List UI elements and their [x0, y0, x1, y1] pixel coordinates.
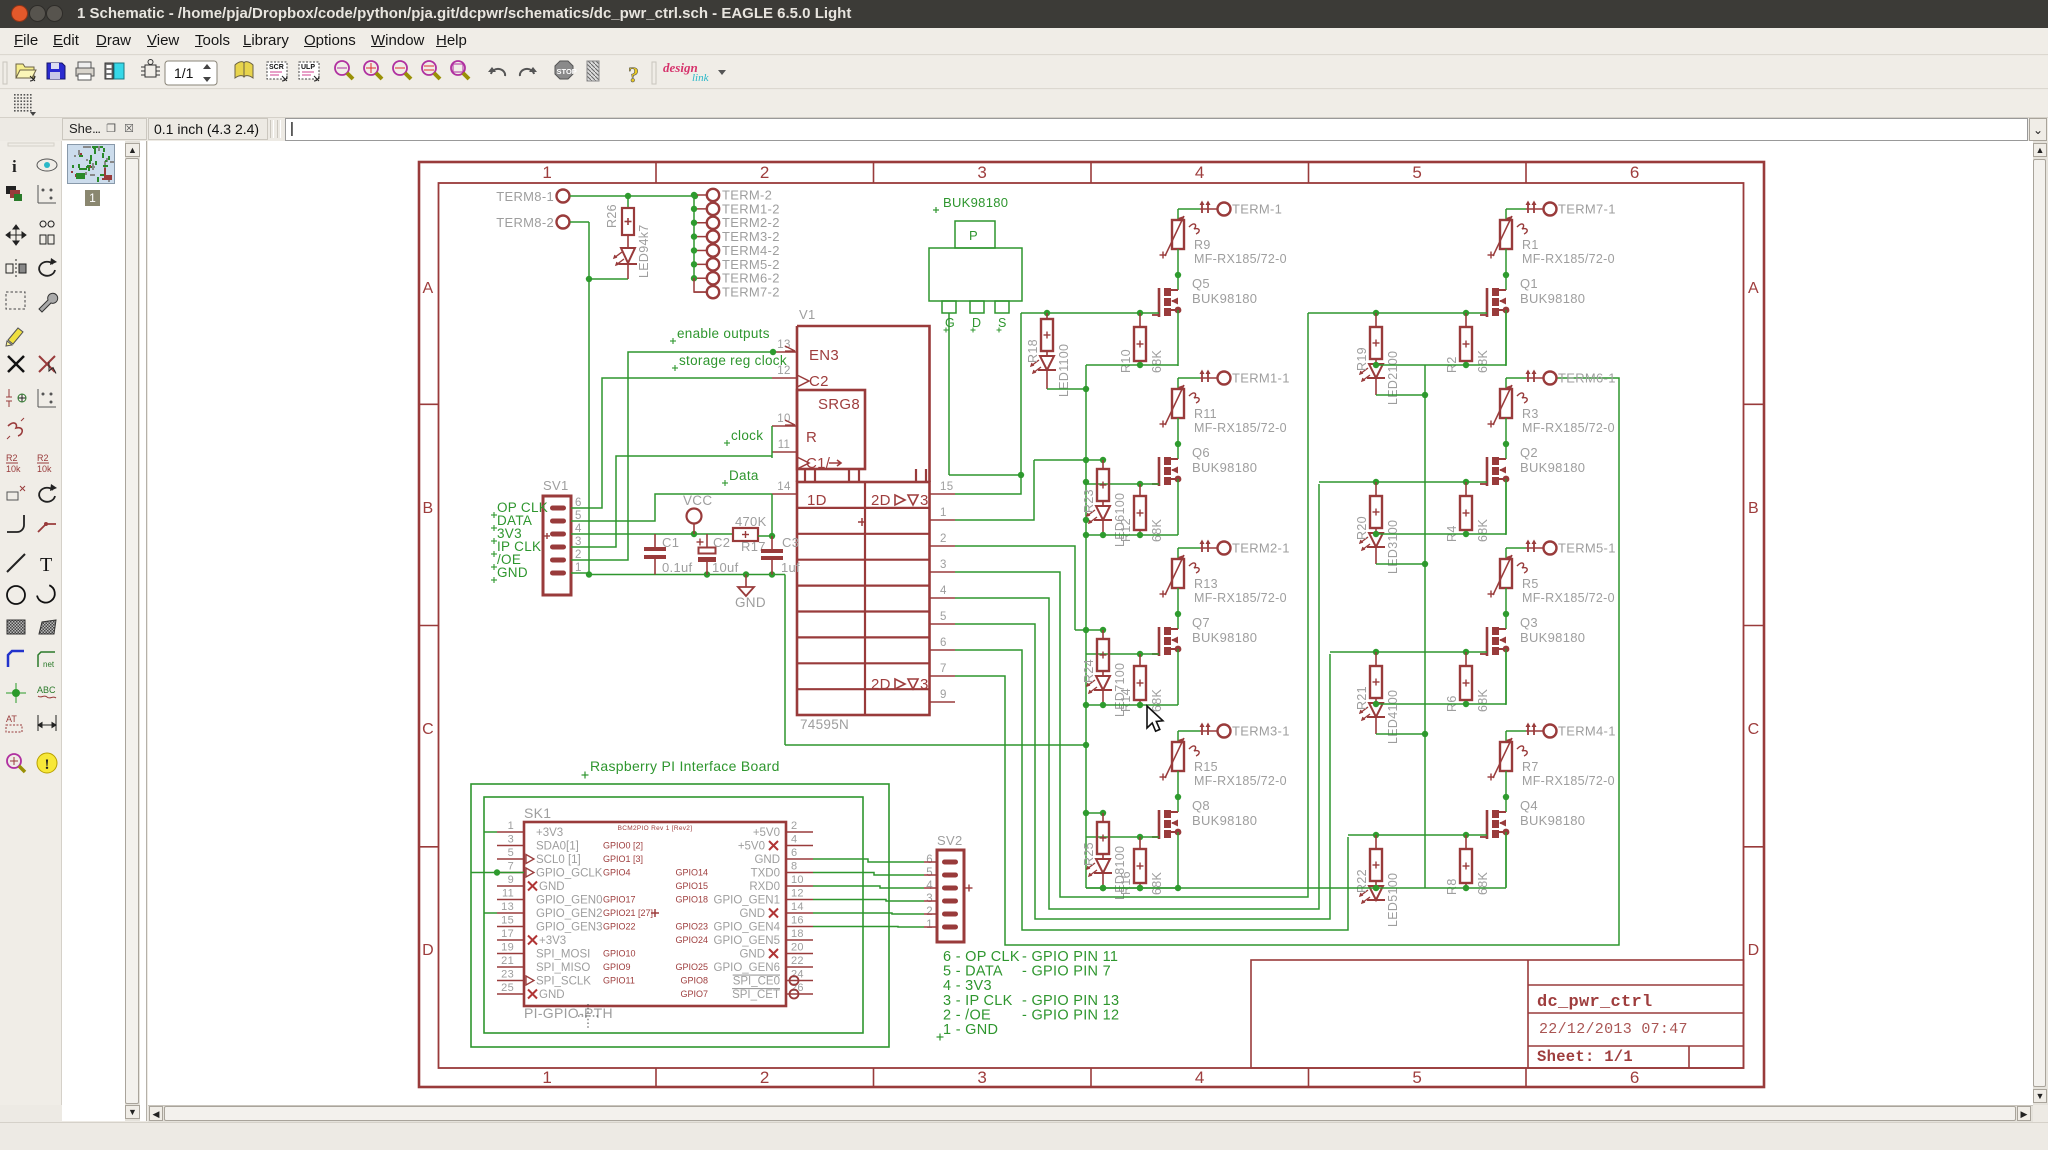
svg-text:68K: 68K	[1150, 349, 1164, 373]
svg-text:- GPIO PIN 7: - GPIO PIN 7	[1022, 964, 1111, 980]
svg-text:GPIO24: GPIO24	[675, 935, 708, 945]
svg-text:0.1uf: 0.1uf	[662, 560, 693, 575]
svg-text:21: 21	[501, 955, 514, 967]
svg-text:5: 5	[1412, 1068, 1422, 1087]
svg-text:TERM8-2: TERM8-2	[496, 215, 554, 230]
svg-text:3: 3	[977, 163, 987, 182]
svg-text:+3V3: +3V3	[539, 935, 566, 947]
svg-text:MF-RX185/72-0: MF-RX185/72-0	[1194, 591, 1287, 605]
svg-text:68K: 68K	[1150, 688, 1164, 712]
svg-text:R2: R2	[6, 453, 18, 463]
svg-text:?: ?	[628, 62, 639, 87]
svg-text:3: 3	[926, 893, 933, 905]
svg-text:ABC: ABC	[37, 685, 56, 695]
svg-text:A: A	[423, 280, 434, 297]
svg-text:SPI_CE0: SPI_CE0	[733, 976, 780, 988]
svg-text:6: 6	[1630, 1068, 1640, 1087]
svg-text:74595N: 74595N	[800, 717, 849, 732]
svg-text:STOP: STOP	[557, 67, 577, 76]
svg-text:TERM6-2: TERM6-2	[722, 271, 780, 286]
svg-text:ULP: ULP	[301, 64, 315, 71]
svg-text:8: 8	[791, 861, 797, 873]
svg-text:4 - 3V3: 4 - 3V3	[943, 978, 992, 994]
svg-text:GPIO17: GPIO17	[603, 895, 636, 905]
svg-text:B: B	[1748, 500, 1759, 517]
svg-text:AT: AT	[6, 714, 17, 724]
svg-text:Q5: Q5	[1192, 276, 1210, 291]
svg-text:C1: C1	[662, 535, 679, 550]
svg-text:1: 1	[508, 820, 514, 832]
svg-text:P: P	[969, 228, 978, 243]
svg-text:2: 2	[940, 533, 947, 545]
svg-text:3: 3	[575, 536, 582, 548]
svg-text:5: 5	[508, 847, 514, 859]
svg-text:TERM3-2: TERM3-2	[722, 229, 780, 244]
svg-text:1: 1	[542, 163, 552, 182]
svg-text:T: T	[40, 554, 52, 576]
svg-text:storage reg clock: storage reg clock	[679, 353, 787, 368]
svg-text:BUK98180: BUK98180	[1520, 630, 1585, 645]
svg-text:TERM7-2: TERM7-2	[722, 285, 780, 300]
svg-text:MF-RX185/72-0: MF-RX185/72-0	[1522, 421, 1615, 435]
svg-text:!: !	[45, 757, 50, 773]
svg-text:- GPIO PIN 13: - GPIO PIN 13	[1022, 993, 1119, 1009]
svg-text:TERM7-1: TERM7-1	[1558, 202, 1616, 217]
svg-text:VCC: VCC	[683, 493, 712, 508]
svg-text:2D: 2D	[871, 676, 891, 693]
svg-text:1: 1	[940, 507, 947, 519]
svg-text:R10: R10	[1119, 349, 1133, 373]
svg-text:TERM-1: TERM-1	[1232, 202, 1282, 217]
svg-text:1: 1	[575, 562, 582, 574]
svg-text:6: 6	[575, 497, 582, 509]
svg-text:10k: 10k	[37, 464, 52, 474]
svg-text:1: 1	[926, 919, 933, 931]
svg-text:2: 2	[926, 906, 933, 918]
svg-text:11: 11	[502, 888, 514, 900]
svg-text:SPI_SCLK: SPI_SCLK	[536, 976, 591, 988]
svg-text:TXD0: TXD0	[751, 868, 780, 880]
svg-text:SCR: SCR	[269, 64, 284, 71]
svg-text:68K: 68K	[1150, 518, 1164, 542]
svg-text:Q2: Q2	[1520, 445, 1538, 460]
svg-text:GPIO15: GPIO15	[675, 881, 708, 891]
svg-text:16: 16	[791, 915, 804, 927]
svg-text:GND: GND	[754, 854, 780, 866]
svg-text:10k: 10k	[6, 464, 21, 474]
svg-text:enable outputs: enable outputs	[677, 326, 770, 341]
svg-text:68K: 68K	[1476, 349, 1490, 373]
svg-text:BUK98180: BUK98180	[1520, 813, 1585, 828]
svg-text:3: 3	[920, 492, 929, 509]
svg-text:SRG8: SRG8	[818, 396, 860, 413]
svg-text:3: 3	[977, 1068, 987, 1087]
svg-text:19: 19	[501, 942, 514, 954]
svg-text:7: 7	[940, 663, 947, 675]
svg-text:BUK98180: BUK98180	[1192, 460, 1257, 475]
svg-text:MF-RX185/72-0: MF-RX185/72-0	[1522, 591, 1615, 605]
svg-text:C1/: C1/	[806, 455, 831, 472]
svg-text:SK1: SK1	[524, 805, 551, 821]
svg-text:R11: R11	[1194, 407, 1217, 421]
svg-text:G: G	[945, 316, 955, 330]
svg-text:TERM5-1: TERM5-1	[1558, 541, 1616, 556]
svg-text:link: link	[692, 72, 710, 84]
svg-text:R20: R20	[1355, 516, 1369, 540]
svg-text:6: 6	[1630, 163, 1640, 182]
svg-text:Q8: Q8	[1192, 798, 1210, 813]
svg-text:3: 3	[920, 676, 929, 693]
svg-text:TERM-2: TERM-2	[722, 188, 772, 203]
svg-text:D: D	[422, 942, 434, 959]
svg-text:GPIO23: GPIO23	[675, 922, 708, 932]
svg-text:1uf: 1uf	[781, 560, 800, 575]
svg-text:C: C	[422, 721, 434, 738]
svg-text:GND: GND	[739, 949, 765, 961]
svg-text:3: 3	[508, 834, 514, 846]
svg-text:MF-RX185/72-0: MF-RX185/72-0	[1194, 421, 1287, 435]
svg-text:LED4100: LED4100	[1386, 690, 1400, 744]
svg-text:GPIO4: GPIO4	[603, 868, 631, 878]
svg-text:GPIO0 [2]: GPIO0 [2]	[603, 841, 643, 851]
svg-text:4: 4	[926, 880, 933, 892]
svg-text:GPIO21 [27]: GPIO21 [27]	[603, 908, 653, 918]
svg-text:20: 20	[791, 942, 804, 954]
svg-text:GPIO_GEN6: GPIO_GEN6	[714, 962, 780, 974]
svg-text:RXD0: RXD0	[749, 881, 780, 893]
svg-text:Sheet: 1/1: Sheet: 1/1	[1537, 1048, 1633, 1066]
svg-text:BUK98180: BUK98180	[943, 195, 1008, 210]
svg-text:+5V0: +5V0	[738, 841, 765, 853]
svg-text:R26: R26	[605, 204, 619, 228]
svg-text:+3V3: +3V3	[536, 827, 563, 839]
svg-text:2: 2	[575, 549, 582, 561]
svg-text:1/1: 1/1	[174, 65, 194, 81]
svg-text:R19: R19	[1355, 347, 1369, 371]
svg-text:R7: R7	[1522, 760, 1539, 774]
svg-text:5: 5	[926, 867, 933, 879]
svg-text:GPIO_GEN3: GPIO_GEN3	[536, 922, 602, 934]
svg-text:GPIO9: GPIO9	[603, 962, 631, 972]
svg-text:22/12/2013 07:47: 22/12/2013 07:47	[1539, 1021, 1688, 1038]
svg-text:SPI_CET: SPI_CET	[732, 989, 780, 1001]
svg-text:R22: R22	[1355, 869, 1369, 893]
svg-text:11: 11	[778, 439, 791, 451]
svg-text:TERM6-1: TERM6-1	[1558, 371, 1616, 386]
svg-text:R: R	[806, 429, 817, 446]
svg-text:10uf: 10uf	[712, 560, 739, 575]
svg-text:TERM8-1: TERM8-1	[496, 189, 554, 204]
svg-text:470K: 470K	[735, 514, 767, 529]
svg-text:68K: 68K	[1476, 688, 1490, 712]
svg-text:R25: R25	[1082, 842, 1096, 866]
svg-text:25: 25	[501, 982, 514, 994]
svg-text:MF-RX185/72-0: MF-RX185/72-0	[1522, 774, 1615, 788]
svg-text:4: 4	[575, 523, 582, 535]
svg-text:Q6: Q6	[1192, 445, 1210, 460]
svg-text:GND: GND	[539, 881, 565, 893]
svg-text:net: net	[43, 660, 55, 669]
svg-text:6 - OP CLK: 6 - OP CLK	[943, 949, 1020, 965]
svg-text:dc_pwr_ctrl: dc_pwr_ctrl	[1537, 993, 1653, 1012]
svg-text:7: 7	[508, 861, 514, 873]
svg-text:1D: 1D	[807, 492, 827, 509]
svg-text:R18: R18	[1026, 339, 1040, 363]
svg-text:68K: 68K	[1476, 518, 1490, 542]
svg-text:GND: GND	[497, 565, 528, 580]
svg-text:V1: V1	[799, 307, 816, 322]
svg-text:5: 5	[575, 510, 582, 522]
svg-text:SPI_MOSI: SPI_MOSI	[536, 949, 590, 961]
svg-text:R1: R1	[1522, 238, 1539, 252]
svg-text:PI-GPIO-PTH: PI-GPIO-PTH	[524, 1005, 613, 1021]
svg-text:D: D	[1748, 942, 1760, 959]
svg-text:13: 13	[777, 339, 790, 351]
svg-text:BCM2PIO Rev 1 [Rev2]: BCM2PIO Rev 1 [Rev2]	[618, 825, 693, 832]
svg-text:MF-RX185/72-0: MF-RX185/72-0	[1194, 252, 1287, 266]
svg-text:22: 22	[791, 955, 804, 967]
svg-text:C: C	[1748, 721, 1760, 738]
svg-text:TERM4-2: TERM4-2	[722, 243, 780, 258]
svg-text:3: 3	[940, 559, 947, 571]
svg-text:SCL0 [1]: SCL0 [1]	[536, 854, 581, 866]
svg-text:2D: 2D	[871, 492, 891, 509]
svg-text:68K: 68K	[1150, 871, 1164, 895]
svg-text:14: 14	[791, 901, 804, 913]
svg-text:2: 2	[791, 820, 797, 832]
svg-text:- GPIO PIN 12: - GPIO PIN 12	[1022, 1007, 1119, 1023]
svg-text:13: 13	[501, 901, 514, 913]
svg-text:C2: C2	[809, 373, 829, 390]
svg-text:R9: R9	[1194, 238, 1211, 252]
svg-text:BUK98180: BUK98180	[1520, 460, 1585, 475]
svg-text:BUK98180: BUK98180	[1192, 813, 1257, 828]
svg-text:Q3: Q3	[1520, 615, 1538, 630]
svg-text:i: i	[12, 157, 17, 176]
svg-text:R13: R13	[1194, 577, 1218, 591]
svg-text:GPIO7: GPIO7	[680, 989, 708, 999]
svg-text:1: 1	[542, 1068, 552, 1087]
svg-text:GPIO_GEN1: GPIO_GEN1	[714, 895, 780, 907]
svg-text:2: 2	[760, 163, 770, 182]
svg-text:15: 15	[940, 481, 953, 493]
svg-text:5: 5	[1412, 163, 1422, 182]
svg-text:GPIO22: GPIO22	[603, 922, 636, 932]
svg-text:1 - GND: 1 - GND	[943, 1022, 998, 1038]
svg-text:4: 4	[940, 585, 947, 597]
svg-text:B: B	[423, 500, 434, 517]
svg-text:4: 4	[1195, 1068, 1205, 1087]
svg-text:6: 6	[791, 847, 797, 859]
svg-text:LED3100: LED3100	[1386, 520, 1400, 574]
svg-text:4: 4	[1195, 163, 1205, 182]
svg-text:R23: R23	[1082, 489, 1096, 513]
svg-text:GPIO_GEN2: GPIO_GEN2	[536, 908, 602, 920]
svg-text:R14: R14	[1119, 688, 1133, 712]
svg-text:15: 15	[501, 915, 514, 927]
svg-text:17: 17	[501, 928, 514, 940]
svg-text:GPIO_GEN0: GPIO_GEN0	[536, 895, 602, 907]
svg-text:Q1: Q1	[1520, 276, 1538, 291]
svg-text:3 - IP CLK: 3 - IP CLK	[943, 993, 1013, 1009]
svg-text:GPIO_GCLK: GPIO_GCLK	[536, 868, 603, 880]
svg-text:12: 12	[791, 888, 804, 900]
svg-text:GPIO14: GPIO14	[675, 868, 708, 878]
svg-text:R21: R21	[1355, 686, 1369, 710]
svg-text:BUK98180: BUK98180	[1520, 291, 1585, 306]
svg-text:TERM2-2: TERM2-2	[722, 215, 780, 230]
svg-text:GPIO1 [3]: GPIO1 [3]	[603, 854, 643, 864]
svg-text:23: 23	[501, 969, 514, 981]
svg-text:68K: 68K	[1476, 871, 1490, 895]
svg-text:R5: R5	[1522, 577, 1539, 591]
svg-text:9: 9	[508, 874, 514, 886]
svg-text:GND: GND	[735, 595, 766, 610]
svg-text:GPIO18: GPIO18	[675, 895, 708, 905]
svg-text:6: 6	[926, 854, 933, 866]
svg-text:GND: GND	[539, 989, 565, 1001]
svg-text:GPIO10: GPIO10	[603, 949, 636, 959]
svg-text:R15: R15	[1194, 760, 1218, 774]
svg-text:GPIO_GEN5: GPIO_GEN5	[714, 935, 780, 947]
svg-text:5: 5	[940, 611, 947, 623]
svg-text:LED5100: LED5100	[1386, 873, 1400, 927]
svg-text:10: 10	[791, 874, 804, 886]
svg-text:GND: GND	[739, 908, 765, 920]
svg-text:TERM3-1: TERM3-1	[1232, 724, 1290, 739]
svg-text:Q4: Q4	[1520, 798, 1538, 813]
svg-text:R24: R24	[1082, 659, 1096, 683]
svg-text:Q7: Q7	[1192, 615, 1210, 630]
svg-text:2 - /OE: 2 - /OE	[943, 1007, 991, 1023]
svg-text:GPIO8: GPIO8	[680, 976, 708, 986]
svg-text:SV2: SV2	[937, 833, 962, 848]
svg-text:6: 6	[940, 637, 947, 649]
svg-text:TERM2-1: TERM2-1	[1232, 541, 1290, 556]
svg-text:C2: C2	[713, 535, 730, 550]
svg-text:EN3: EN3	[809, 347, 839, 364]
svg-text:clock: clock	[731, 428, 763, 443]
svg-text:SV1: SV1	[543, 478, 568, 493]
svg-text:TERM1-2: TERM1-2	[722, 201, 780, 216]
svg-text:SPI_MISO: SPI_MISO	[536, 962, 590, 974]
svg-text:10: 10	[777, 413, 790, 425]
svg-text:R3: R3	[1522, 407, 1539, 421]
svg-text:TERM4-1: TERM4-1	[1558, 724, 1616, 739]
svg-text:2: 2	[760, 1068, 770, 1087]
svg-text:MF-RX185/72-0: MF-RX185/72-0	[1522, 252, 1615, 266]
svg-text:GPIO25: GPIO25	[675, 962, 708, 972]
svg-text:LED94k7: LED94k7	[637, 224, 651, 278]
svg-text:Raspberry PI Interface Board: Raspberry PI Interface Board	[590, 758, 780, 774]
svg-text:R2: R2	[37, 453, 49, 463]
svg-text:MF-RX185/72-0: MF-RX185/72-0	[1194, 774, 1287, 788]
svg-text:C3: C3	[782, 535, 799, 550]
svg-text:Data: Data	[729, 468, 759, 483]
svg-text:5 - DATA: 5 - DATA	[943, 964, 1003, 980]
svg-text:R8: R8	[1445, 878, 1459, 895]
svg-text:TERM5-2: TERM5-2	[722, 257, 780, 272]
svg-text:4: 4	[791, 834, 797, 846]
svg-text:18: 18	[791, 928, 804, 940]
svg-text:BUK98180: BUK98180	[1192, 291, 1257, 306]
svg-text:R16: R16	[1119, 871, 1133, 895]
svg-text:LED2100: LED2100	[1386, 351, 1400, 405]
svg-text:14: 14	[777, 481, 791, 493]
svg-text:A: A	[1748, 280, 1759, 297]
svg-text:GPIO11: GPIO11	[603, 976, 635, 986]
svg-text:BUK98180: BUK98180	[1192, 630, 1257, 645]
svg-text:SDA0[1]: SDA0[1]	[536, 841, 579, 853]
svg-text:R12: R12	[1119, 518, 1133, 542]
svg-text:TERM1-1: TERM1-1	[1232, 371, 1290, 386]
svg-text:9: 9	[940, 689, 947, 701]
svg-text:- GPIO PIN 11: - GPIO PIN 11	[1022, 949, 1118, 965]
svg-text:+5V0: +5V0	[753, 827, 780, 839]
svg-text:GPIO_GEN4: GPIO_GEN4	[714, 922, 781, 934]
